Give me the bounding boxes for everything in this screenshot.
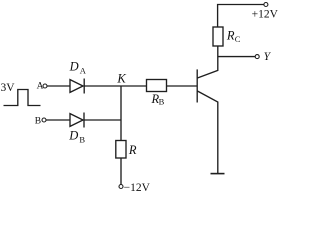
- terminal -12V: [119, 185, 123, 189]
- wire RB to base: [167, 85, 198, 87]
- svg-text:B: B: [159, 97, 165, 107]
- transistor collector lead: [197, 46, 217, 78]
- svg-text:A: A: [37, 81, 44, 91]
- diode DA: [70, 80, 83, 93]
- svg-text:C: C: [235, 34, 241, 44]
- resistor RC: [213, 27, 223, 46]
- svg-text:B: B: [35, 117, 41, 127]
- terminal Y: [255, 55, 259, 59]
- svg-text:D: D: [68, 129, 78, 143]
- svg-text:−12V: −12V: [124, 182, 151, 194]
- diode DB: [70, 114, 83, 127]
- svg-text:+12V: +12V: [252, 8, 279, 20]
- terminal A: [43, 84, 47, 88]
- wire RC to +12V rail: [218, 5, 264, 28]
- svg-text:3V: 3V: [1, 82, 16, 94]
- input pulse waveform: [4, 90, 41, 106]
- terminal +12V: [264, 3, 268, 7]
- transistor emitter lead: [197, 91, 217, 173]
- svg-text:R: R: [226, 29, 235, 43]
- resistor R: [116, 141, 126, 159]
- node K vertical wire: [120, 86, 122, 141]
- wire R to -12V terminal: [120, 158, 122, 185]
- transistor Q1 base bar: [196, 69, 198, 102]
- svg-text:A: A: [80, 66, 87, 76]
- wire collector to Y: [218, 56, 256, 58]
- wire B to DB: [46, 119, 70, 121]
- svg-text:R: R: [128, 143, 137, 157]
- wire DB to node K column: [84, 119, 121, 121]
- svg-text:B: B: [79, 135, 85, 145]
- ground: [211, 173, 225, 175]
- wire A to DA: [47, 85, 70, 87]
- resistor RB: [147, 80, 167, 92]
- terminal B: [42, 118, 46, 122]
- svg-text:D: D: [69, 60, 79, 74]
- wire DA to RB through node K: [84, 85, 146, 87]
- svg-text:K: K: [116, 71, 126, 85]
- svg-text:Y: Y: [264, 51, 272, 63]
